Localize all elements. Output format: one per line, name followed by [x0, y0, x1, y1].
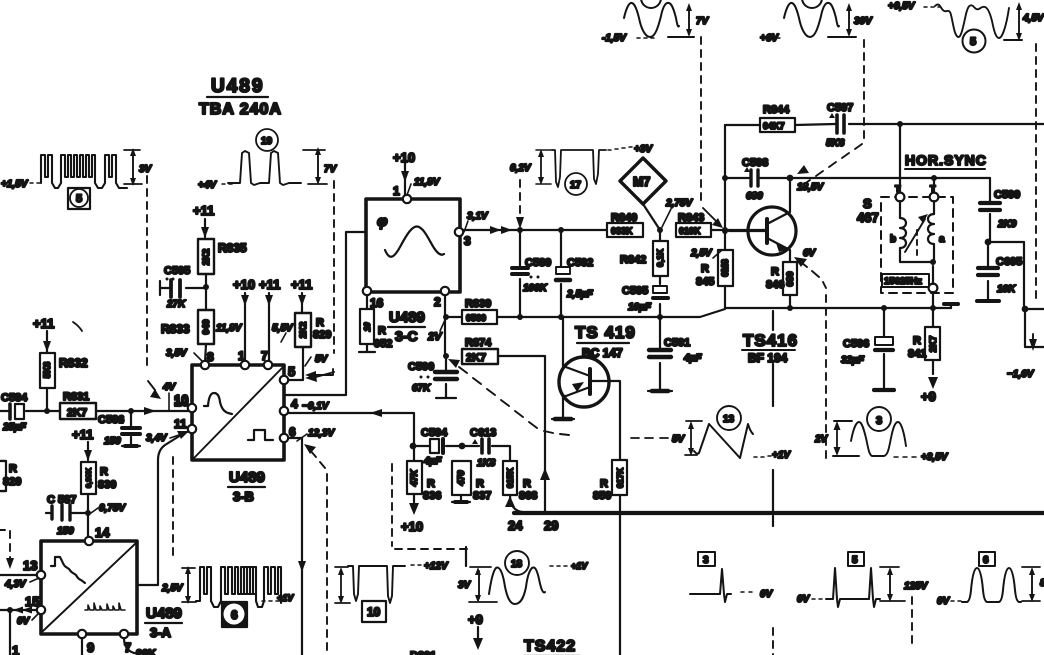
svg-text:15: 15: [25, 594, 39, 609]
svg-text:+1V: +1V: [772, 450, 791, 461]
svg-text:R831: R831: [63, 391, 89, 403]
svg-text:7V: 7V: [696, 16, 710, 27]
svg-text:5: 5: [852, 555, 858, 566]
svg-text:2,75V: 2,75V: [665, 198, 693, 209]
svg-text:+1V: +1V: [277, 593, 294, 603]
svg-text:R832: R832: [59, 356, 88, 370]
svg-text:9: 9: [87, 640, 94, 655]
svg-text:C592: C592: [567, 257, 593, 269]
svg-text:680: 680: [746, 191, 763, 202]
svg-text:846: 846: [766, 279, 784, 291]
svg-text:0,39K: 0,39K: [84, 467, 93, 488]
svg-text:R: R: [378, 325, 386, 337]
svg-text:U489: U489: [229, 469, 265, 486]
svg-text:836: 836: [423, 490, 441, 502]
svg-text:470: 470: [456, 470, 466, 486]
svg-text:+1V: +1V: [571, 561, 588, 571]
svg-text:14: 14: [95, 525, 110, 540]
svg-text:U489: U489: [389, 309, 425, 326]
svg-text:+12V: +12V: [424, 561, 449, 572]
svg-text:3,1V: 3,1V: [467, 211, 489, 222]
svg-text:M7: M7: [633, 175, 650, 189]
svg-text:100K: 100K: [523, 283, 548, 294]
svg-text:R: R: [100, 466, 108, 478]
svg-text:R: R: [9, 463, 17, 475]
svg-text:12,3V: 12,3V: [308, 428, 335, 439]
svg-text:R: R: [523, 478, 531, 490]
svg-text:1: 1: [12, 643, 19, 655]
svg-text:7V: 7V: [324, 164, 338, 175]
svg-text:13: 13: [723, 414, 735, 425]
svg-text:C598: C598: [742, 157, 768, 169]
svg-text:0,75V: 0,75V: [99, 503, 126, 514]
svg-text:R: R: [316, 317, 324, 329]
svg-text:680: 680: [785, 271, 795, 286]
svg-text:C591: C591: [664, 337, 690, 349]
svg-text:1: 1: [393, 184, 400, 198]
svg-text:830: 830: [98, 479, 116, 491]
svg-text:033K: 033K: [611, 226, 633, 236]
svg-text:150: 150: [104, 436, 121, 447]
svg-text:20K: 20K: [136, 648, 156, 655]
svg-text:1K8: 1K8: [477, 458, 496, 469]
svg-text:868: 868: [519, 490, 537, 502]
svg-text:845: 845: [696, 276, 714, 288]
svg-text:R874: R874: [465, 337, 492, 349]
svg-text:850: 850: [593, 490, 611, 502]
svg-text:+3V: +3V: [634, 144, 653, 155]
svg-text:4,5V: 4,5V: [1022, 13, 1044, 24]
svg-text:0,2V: 0,2V: [510, 163, 532, 174]
svg-text:U489: U489: [146, 605, 182, 622]
svg-text:010K: 010K: [679, 226, 701, 236]
svg-text:3,4V: 3,4V: [146, 433, 168, 444]
svg-text:841: 841: [908, 348, 926, 360]
svg-text:2K2: 2K2: [201, 249, 211, 266]
svg-text:3: 3: [703, 555, 709, 566]
svg-text:TS422: TS422: [524, 638, 576, 655]
svg-text:3-A: 3-A: [150, 625, 172, 640]
svg-text:0V: 0V: [937, 596, 951, 607]
svg-text:+10: +10: [233, 277, 255, 292]
svg-text:8: 8: [207, 350, 214, 364]
svg-text:015K: 015K: [505, 467, 515, 488]
svg-text:3-B: 3-B: [233, 489, 254, 504]
svg-text:2K7: 2K7: [67, 407, 87, 419]
svg-text:6: 6: [983, 555, 989, 566]
svg-text:+0,5V: +0,5V: [888, 1, 916, 12]
svg-text:C597: C597: [827, 102, 853, 114]
svg-text:467: 467: [857, 210, 879, 225]
svg-text:C586: C586: [98, 414, 124, 426]
svg-text:C584: C584: [1, 392, 28, 404]
svg-text:25µF: 25µF: [2, 422, 27, 433]
svg-text:67K: 67K: [412, 383, 431, 394]
svg-text:+1,5V: +1,5V: [1, 179, 29, 190]
svg-text:5K6: 5K6: [826, 138, 845, 149]
svg-text:BF 194: BF 194: [748, 351, 788, 365]
svg-text:2,5V: 2,5V: [690, 248, 713, 259]
svg-text:D801: D801: [410, 650, 436, 655]
svg-text:29: 29: [544, 518, 558, 533]
svg-text:2V: 2V: [814, 434, 829, 445]
svg-text:0,1K: 0,1K: [655, 248, 665, 267]
svg-text:R843: R843: [678, 212, 704, 224]
svg-text:3,5V: 3,5V: [166, 348, 188, 359]
svg-text:R844: R844: [763, 104, 790, 116]
svg-text:837: 837: [473, 490, 491, 502]
svg-text:5V: 5V: [672, 434, 686, 445]
svg-text:+9: +9: [468, 612, 483, 627]
svg-text:C590: C590: [408, 361, 434, 373]
svg-text:4: 4: [291, 397, 298, 411]
svg-text:2K9: 2K9: [997, 219, 1017, 230]
svg-text:7: 7: [261, 349, 268, 363]
svg-text:S: S: [863, 196, 872, 211]
svg-text:3-C: 3-C: [395, 328, 418, 344]
svg-text:4µF: 4µF: [683, 353, 702, 364]
svg-text:2,5µF: 2,5µF: [566, 289, 594, 300]
svg-text:a: a: [939, 234, 945, 245]
svg-text:2K7: 2K7: [928, 336, 938, 353]
svg-text:C605: C605: [996, 256, 1022, 268]
svg-text:1: 1: [238, 349, 245, 363]
svg-text:2K2: 2K2: [298, 322, 308, 339]
svg-text:30V: 30V: [854, 16, 873, 27]
svg-text:C613: C613: [470, 427, 496, 439]
svg-text:+11: +11: [33, 316, 54, 331]
svg-text:6: 6: [231, 608, 238, 622]
svg-text:C505: C505: [164, 265, 190, 277]
svg-text:3V: 3V: [139, 164, 153, 175]
svg-text:17: 17: [570, 180, 582, 191]
svg-text:2K7: 2K7: [466, 352, 486, 364]
svg-text:150: 150: [57, 526, 74, 537]
svg-text:C599: C599: [994, 189, 1020, 201]
svg-text:+11: +11: [193, 203, 214, 218]
svg-text:TS 419: TS 419: [575, 323, 636, 342]
svg-text:0V: 0V: [760, 589, 774, 600]
svg-text:+9: +9: [921, 389, 936, 404]
svg-text:0V: 0V: [797, 594, 811, 605]
svg-text:−0,1V: −0,1V: [302, 401, 330, 412]
svg-text:R833: R833: [161, 322, 190, 336]
svg-text:+11: +11: [291, 277, 312, 292]
svg-text:32µF: 32µF: [841, 355, 865, 366]
svg-text:2: 2: [434, 295, 441, 309]
svg-text:3: 3: [876, 415, 882, 427]
svg-text:18,5V: 18,5V: [797, 182, 824, 193]
svg-text:+3,5V: +3,5V: [921, 452, 949, 463]
svg-text:R839: R839: [465, 298, 491, 310]
svg-text:10K: 10K: [997, 284, 1016, 295]
svg-text:952: 952: [374, 338, 392, 350]
svg-text:R840: R840: [611, 212, 637, 224]
svg-text:15625Hz: 15625Hz: [884, 276, 922, 287]
svg-text:0560: 0560: [466, 313, 486, 323]
svg-text:+10: +10: [401, 519, 423, 534]
svg-text:T: T: [930, 184, 936, 194]
svg-text:2,5V: 2,5V: [161, 583, 184, 594]
svg-text:R: R: [701, 263, 709, 275]
svg-text:T: T: [895, 184, 901, 194]
svg-text:R842: R842: [620, 254, 646, 266]
svg-text:10: 10: [174, 394, 188, 409]
svg-text:R: R: [771, 266, 779, 278]
svg-text:10: 10: [367, 605, 381, 619]
svg-text:R: R: [600, 478, 608, 490]
svg-text:11,8V: 11,8V: [216, 323, 243, 334]
svg-text:820: 820: [3, 476, 21, 488]
svg-text:47K: 47K: [409, 468, 419, 487]
svg-text:R: R: [427, 478, 435, 490]
svg-text:13: 13: [23, 558, 37, 573]
svg-text:11,8V: 11,8V: [414, 177, 441, 188]
svg-text:10µF: 10µF: [628, 302, 652, 313]
svg-text:-1,5V: -1,5V: [602, 33, 627, 44]
svg-text:017K: 017K: [615, 467, 625, 488]
svg-text:24: 24: [508, 518, 523, 533]
svg-text:2V: 2V: [427, 331, 443, 343]
svg-text:+11: +11: [259, 277, 280, 292]
svg-text:5,5V: 5,5V: [272, 323, 294, 334]
svg-text:5K6: 5K6: [42, 362, 52, 379]
svg-text:829: 829: [313, 329, 331, 341]
svg-text:5: 5: [288, 364, 295, 379]
svg-text:4µF: 4µF: [423, 456, 442, 467]
svg-text:b: b: [890, 234, 896, 245]
svg-text:27K: 27K: [166, 299, 186, 310]
svg-text:3V: 3V: [458, 580, 472, 591]
svg-text:TBA 240A: TBA 240A: [199, 101, 282, 118]
svg-text:TS416: TS416: [743, 331, 798, 350]
svg-text:φ: φ: [377, 213, 388, 230]
svg-text:−1,6V: −1,6V: [1007, 369, 1035, 380]
svg-text:4,3V: 4,3V: [4, 579, 27, 590]
svg-text:6M8: 6M8: [720, 259, 730, 277]
svg-text:11: 11: [174, 417, 187, 431]
svg-text:040: 040: [201, 319, 211, 334]
svg-text:C596: C596: [843, 338, 869, 350]
svg-text:C595: C595: [622, 285, 648, 297]
svg-text:8: 8: [1040, 578, 1044, 589]
svg-text:0V: 0V: [17, 616, 31, 627]
svg-text:+4V: +4V: [198, 180, 217, 191]
svg-text:10: 10: [363, 322, 372, 331]
svg-text:04K7: 04K7: [763, 121, 785, 131]
svg-text:5: 5: [970, 36, 976, 48]
svg-text:18: 18: [511, 559, 523, 570]
svg-text:C594: C594: [421, 427, 448, 439]
svg-text:C589: C589: [525, 257, 551, 269]
svg-text:R: R: [913, 335, 921, 347]
svg-text:19: 19: [261, 136, 273, 147]
svg-text:6V: 6V: [803, 248, 817, 259]
svg-text:125V: 125V: [904, 581, 929, 592]
svg-text:5V: 5V: [315, 354, 329, 365]
svg-text:HOR.SYNC: HOR.SYNC: [905, 152, 987, 168]
svg-text:5: 5: [76, 193, 82, 205]
svg-text:+11: +11: [72, 427, 93, 442]
svg-text:R835: R835: [218, 241, 247, 255]
svg-text:U489: U489: [211, 76, 264, 97]
svg-text:R: R: [476, 478, 484, 490]
svg-text:3: 3: [464, 234, 471, 248]
